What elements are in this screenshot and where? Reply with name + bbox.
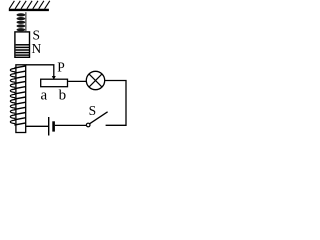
switch blade [90, 112, 108, 124]
slider arrowhead [52, 76, 56, 80]
rheostat body [41, 79, 68, 87]
ceiling bar [9, 9, 49, 11]
svg-text:a: a [40, 87, 47, 103]
spring [17, 13, 26, 31]
svg-text:S: S [89, 103, 97, 118]
svg-text:b: b [59, 87, 67, 103]
bar magnet [15, 32, 30, 57]
wire: coil top to slider [26, 65, 54, 77]
coil core [16, 65, 26, 133]
wire: coil bottom to battery [26, 125, 49, 127]
svg-text:P: P [57, 60, 65, 75]
coil (solenoid) turns [10, 66, 25, 125]
svg-text:N: N [32, 41, 42, 56]
battery negative plate [52, 121, 55, 131]
wire: battery to switch [55, 124, 86, 126]
ceiling support hatching [9, 1, 50, 9]
magnet N-pole stripes [16, 45, 30, 55]
wire: rheostat b to lamp [68, 80, 86, 82]
switch pivot circle [86, 123, 90, 127]
battery positive plate [48, 117, 50, 136]
wire: lamp to right corner down to switch [105, 81, 126, 126]
lamp [86, 71, 104, 89]
